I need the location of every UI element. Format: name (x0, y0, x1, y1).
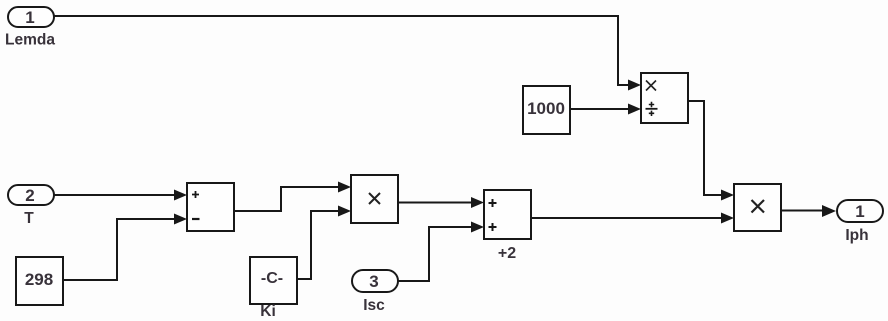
output port 1 (Iph) (837, 200, 883, 222)
svg-text:Isc: Isc (363, 297, 385, 314)
divide block U1 (x over divide) (641, 73, 688, 123)
constant block 298 (16, 257, 63, 305)
svg-text:3: 3 (369, 272, 378, 291)
svg-text:Ki: Ki (260, 303, 276, 320)
wire Add output to Product3 input 2 (531, 217, 722, 219)
constant block -C- (Ki) (250, 257, 297, 304)
wire 298 to Sum input 2 (63, 219, 175, 280)
wire Product2 output to Add input 1 (398, 202, 472, 204)
svg-text:Iph: Iph (845, 227, 868, 244)
input port 1 (Lemda) (8, 7, 54, 27)
product block P2 (X) (351, 175, 398, 223)
add block S2 (plus plus) (484, 190, 531, 239)
input port 3 (Isc) (352, 270, 398, 292)
svg-text:1000: 1000 (527, 99, 565, 118)
wire 1000 to Divide input 2 (570, 108, 629, 110)
svg-text:T: T (24, 210, 34, 227)
wire T to Sum input 1 (54, 194, 175, 196)
svg-text:1: 1 (25, 8, 34, 27)
svg-text:+2: +2 (498, 245, 516, 262)
constant block 1000 (523, 86, 570, 134)
svg-text:2: 2 (25, 186, 34, 205)
svg-text:Lemda: Lemda (5, 32, 55, 49)
input port 2 (T) (8, 185, 54, 205)
svg-text:-C-: -C- (261, 270, 283, 287)
sum block S1 (plus minus) (187, 183, 234, 231)
svg-text:298: 298 (25, 270, 53, 289)
product block P3 (X) (734, 184, 781, 231)
wire Sum output to Product2 input 1 (234, 187, 339, 211)
svg-text:1: 1 (855, 202, 864, 221)
wire Isc to Add input 2 (398, 227, 472, 281)
wire Product3 output to Iph port (781, 210, 823, 212)
wire Lemda to Divide input 1 (54, 16, 629, 85)
wire Ki to Product2 input 2 (297, 211, 339, 279)
wire Divide output to Product input 1 (688, 101, 722, 195)
